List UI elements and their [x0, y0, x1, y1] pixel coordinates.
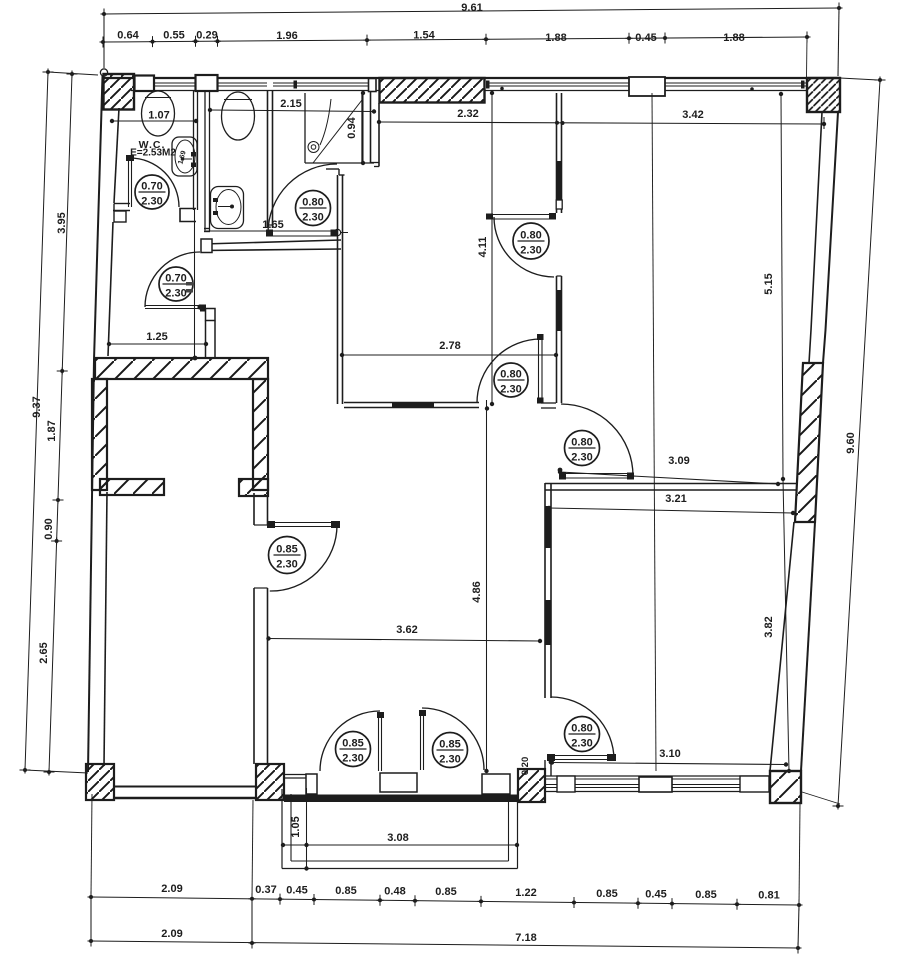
svg-text:0.85: 0.85: [596, 888, 617, 900]
door D10 jamb block right: [331, 521, 340, 528]
bottom window jamb pier b (white): [740, 776, 769, 792]
extension right top: [840, 78, 878, 80]
svg-text:9.60: 9.60: [845, 432, 857, 453]
kitchen counter: [304, 93, 306, 163]
window jamb ticks top wall: [294, 81, 298, 89]
svg-text:E=2.53M2: E=2.53M2: [130, 148, 176, 159]
stairwell left wall (hatched): [92, 379, 107, 490]
long reference line x=654: [652, 93, 656, 771]
door D3 swing arc: [494, 217, 554, 277]
svg-text:2.15: 2.15: [280, 98, 301, 110]
svg-text:0.45: 0.45: [286, 884, 307, 896]
svg-text:0.85: 0.85: [435, 886, 456, 898]
svg-text:0.85: 0.85: [695, 889, 716, 901]
dim node at stairwell top: [193, 356, 198, 361]
svg-text:0.85: 0.85: [276, 544, 297, 556]
svg-text:0.70: 0.70: [141, 181, 162, 193]
hall bottom wall: [344, 402, 479, 404]
door D7 top cap: [419, 710, 426, 716]
svg-text:0.37: 0.37: [255, 884, 276, 896]
door D1 WC 0.70 leaf: [128, 157, 130, 207]
door D2 bath label circle: [296, 191, 331, 226]
hall top wall: [203, 240, 341, 244]
svg-text:0.80: 0.80: [571, 437, 592, 449]
door D7 swing arc: [422, 708, 484, 770]
svg-text:1.54: 1.54: [413, 30, 435, 42]
svg-text:0.80: 0.80: [520, 230, 541, 242]
svg-text:3.09: 3.09: [668, 455, 689, 467]
svg-text:1.07: 1.07: [148, 110, 169, 122]
svg-text:2.30: 2.30: [276, 559, 297, 571]
dim 3.10 bottom window: [552, 763, 786, 765]
balcony outline inner: [290, 794, 292, 861]
extension line top-right corner: [838, 8, 839, 76]
kitchen right wall: [370, 92, 372, 163]
toilet WC: [142, 91, 175, 136]
column bottom (hatched, 0.20): [518, 769, 545, 802]
door D2 bath2 leaf: [268, 230, 337, 232]
door D7 leaf: [420, 712, 422, 770]
svg-text:0.45: 0.45: [645, 888, 666, 900]
door D4 hall south leaf: [538, 336, 540, 403]
bedroom west wall below door9: [544, 760, 546, 776]
door D10 swing arc: [270, 525, 337, 591]
svg-text:0.70: 0.70: [165, 273, 186, 285]
door D5 swing arc: [145, 252, 200, 307]
dimension left inner chain 3.95/1.87/0.90/2.65: [49, 74, 72, 772]
dim 2.78 hall: [342, 354, 556, 356]
dark band bedroom west wall upper: [545, 506, 551, 548]
svg-text:2.78: 2.78: [439, 340, 460, 352]
column bottom left-middle (hatched): [256, 764, 284, 800]
door jamb pier right (white): [482, 774, 510, 794]
door D6 leaf: [378, 714, 380, 771]
door D3 jamb block right: [549, 213, 556, 220]
kitchen faucet curve: [320, 99, 331, 145]
node dot window B: [500, 87, 504, 91]
svg-text:4.11: 4.11: [477, 237, 489, 258]
thin line below WC door jamb: [194, 209, 196, 360]
svg-text:0.29: 0.29: [196, 30, 217, 42]
kitchen counter diagonal: [313, 100, 362, 163]
dark band hall east wall: [556, 290, 562, 331]
hatched pier right wall: [795, 363, 823, 522]
svg-text:0.85: 0.85: [335, 885, 356, 897]
door D5 hall label circle: [159, 267, 193, 301]
kitchen nook step to hall wall: [326, 168, 339, 170]
door D3 front room leaf: [486, 214, 556, 216]
svg-text:3.08: 3.08: [387, 832, 408, 844]
dim 1.05 balcony: [306, 788, 308, 869]
svg-text:2.30: 2.30: [342, 753, 363, 765]
door D4 swing arc: [477, 339, 541, 403]
svg-text:2.30: 2.30: [571, 738, 592, 750]
bottom wall middle: thick band to balcony: [284, 795, 518, 803]
dim 2.15 kitchen: [210, 110, 374, 112]
extension right bottom: [802, 792, 840, 804]
bottom wall middle: top face: [284, 774, 306, 776]
svg-text:0.64: 0.64: [117, 30, 139, 42]
column bottom-left corner (hatched): [86, 764, 114, 800]
dim 3.21 bedroom: [549, 508, 793, 513]
hall east wall: [556, 276, 558, 403]
door D1 top cap: [126, 155, 134, 161]
dimension bottom row: 2.09 0.37 0.45 0.85 0.48 0.85 1.22 0.85 0.45 0.85 0.81: [91, 897, 799, 905]
dark band bedroom west wall lower: [545, 600, 552, 645]
balcony outline outer: [281, 789, 283, 869]
svg-text:0.80: 0.80: [500, 369, 521, 381]
dimension left outer: 9.37: [25, 72, 48, 770]
door D4 cap top: [537, 334, 544, 340]
door D2 jamb block left: [266, 230, 273, 237]
exterior wall top: outer face: [104, 77, 840, 79]
door D4 cap bottom: [537, 398, 544, 404]
svg-text:3.42: 3.42: [682, 109, 703, 121]
hall top wall left end pillar: [201, 239, 212, 253]
svg-text:1.88: 1.88: [545, 32, 566, 44]
svg-text:0.80: 0.80: [571, 723, 592, 735]
WC door jamb C-shape: [180, 209, 196, 222]
dim 3.09: [560, 472, 778, 484]
svg-text:0.94: 0.94: [346, 116, 358, 138]
svg-text:2.30: 2.30: [141, 196, 162, 208]
svg-text:2.30: 2.30: [571, 452, 592, 464]
door D1 WC label circle: [135, 175, 169, 209]
svg-text:4.86: 4.86: [471, 581, 483, 602]
dim 1.07 WC: [112, 120, 196, 122]
door D7 label circle: [433, 733, 468, 768]
svg-text:0.85: 0.85: [342, 738, 363, 750]
exterior wall left: outer face: [94, 76, 103, 360]
extension lines left top and bottom: [48, 72, 98, 75]
door D10 jamb block left: [267, 521, 275, 528]
svg-text:2.30: 2.30: [439, 754, 460, 766]
door D6 top cap: [377, 712, 384, 718]
svg-text:2.32: 2.32: [457, 108, 478, 120]
door D1 WC swing arc: [130, 158, 179, 207]
washbasin WC: [172, 137, 197, 176]
front room west wall upper segment: [556, 93, 558, 213]
tiny marks next to door D5 label: [186, 282, 193, 286]
dim 2.32 / 3.42: [379, 122, 824, 124]
door D9 swing arc: [551, 697, 614, 760]
left wall step at WC bottom: [114, 203, 130, 205]
svg-text:1.87: 1.87: [46, 420, 58, 441]
svg-text:3.62: 3.62: [396, 624, 417, 636]
door D6 label circle: [336, 732, 371, 767]
dim 3.08 balcony: [283, 844, 517, 846]
pier white top wall 3: [369, 79, 377, 92]
svg-text:0.55: 0.55: [163, 30, 184, 42]
pier white top wall mid (0.45): [629, 77, 665, 96]
dark band front room west wall: [556, 161, 561, 200]
door D8 bedroom leaf: [561, 473, 634, 475]
stairwell right wall (hatched): [253, 379, 268, 490]
svg-text:1.65: 1.65: [262, 219, 283, 231]
door D10 label circle: [269, 537, 306, 574]
svg-text:0.80: 0.80: [302, 197, 323, 209]
column bottom-right corner (hatched): [770, 771, 801, 803]
dim 1.65: [206, 230, 268, 232]
pier white top wall 1: [135, 76, 155, 92]
svg-text:5.15: 5.15: [763, 273, 775, 294]
dimension row 2: 0.64 0.55 0.29 1.96 1.54 1.88 0.45 1.88: [103, 37, 807, 42]
svg-text:1.25: 1.25: [146, 331, 167, 343]
hall west wall: [337, 175, 339, 404]
wall bath2/kitchen divider: [267, 90, 269, 228]
dim 0.94 kitchen: [362, 93, 364, 163]
svg-text:9.37: 9.37: [31, 396, 43, 417]
bath2 bottom cap: [204, 228, 210, 230]
extension line right: [806, 37, 809, 77]
svg-text:1.22: 1.22: [515, 887, 536, 899]
kitchen sink circles: [308, 142, 319, 153]
door D8 hinge: [558, 468, 563, 473]
svg-text:3.10: 3.10: [659, 748, 680, 760]
pier white top wall 2: [196, 75, 218, 91]
hatched wall block top-middle: [380, 78, 485, 103]
toilet bath2: [222, 92, 255, 140]
svg-text:1.96: 1.96: [276, 30, 297, 42]
door D5 hinge: [197, 304, 202, 309]
node dot window C: [750, 87, 754, 91]
bedroom west wall: [544, 483, 546, 698]
door D5 leaf end block: [200, 305, 206, 312]
tap WC basin: [191, 152, 196, 157]
svg-text:2.09: 2.09: [161, 883, 182, 895]
dim 1.25: [109, 343, 207, 345]
door D5 bottom jamb pillar: [206, 309, 216, 321]
bottom window mid pier (white): [639, 777, 672, 792]
door4 right jamb cap: [541, 402, 556, 404]
door D6 swing arc: [320, 711, 380, 771]
svg-text:3.95: 3.95: [56, 212, 68, 233]
svg-text:0.45: 0.45: [635, 32, 656, 44]
door D3 jamb block left: [486, 214, 493, 220]
door D4 label circle: [494, 363, 528, 397]
tick right end of 7.18 line: [797, 943, 799, 954]
bottom window jamb pier a (white): [557, 776, 575, 792]
exterior wall right: inner face: [809, 112, 822, 363]
door D9 hinge: [549, 760, 554, 765]
door D9 label circle: [565, 717, 600, 752]
exterior wall right: outer face: [823, 112, 838, 363]
wall pocket between doors (white): [380, 773, 417, 792]
dimension row: overall width 9.61: [104, 8, 839, 14]
bottom window right section faces: [545, 775, 769, 777]
svg-text:9.61: 9.61: [461, 2, 482, 14]
door D5 hall 0.70 leaf: [145, 305, 201, 307]
column top-left corner (hatched): [104, 74, 135, 110]
dimension bottom row 2: 2.09 / 7.18: [91, 941, 798, 948]
svg-text:0.20: 0.20: [520, 757, 531, 776]
svg-text:2.09: 2.09: [161, 928, 182, 940]
svg-text:1.88: 1.88: [723, 32, 744, 44]
dimension right outer: 9.60: [838, 80, 880, 806]
door jamb pier left (white): [306, 774, 317, 794]
svg-text:2.30: 2.30: [302, 212, 323, 224]
exterior wall top: inner face: [131, 90, 379, 92]
column top-right corner (hatched): [807, 78, 840, 112]
middle room west wall lower: [253, 588, 255, 764]
door D3 label circle: [513, 223, 549, 259]
wall below door D5: [205, 321, 207, 359]
door D8 label circle: [565, 431, 600, 466]
svg-text:2.30: 2.30: [520, 245, 541, 257]
datum circle top-left corner: [100, 69, 107, 76]
door D8 swing arc: [561, 404, 633, 476]
stairwell flange left (hatched): [100, 479, 164, 495]
extension line top-left corner: [103, 10, 105, 68]
door D9 jamb block right: [607, 754, 616, 761]
window glazing lines top wall: [155, 82, 196, 84]
bedroom top wall: [545, 483, 797, 485]
svg-text:0.90: 0.90: [43, 518, 55, 539]
stairwell flange right (hatched): [239, 479, 268, 496]
middle room west wall upper: [253, 493, 255, 525]
svg-text:0.48: 0.48: [384, 885, 405, 897]
door D9 balcony leaf: [549, 755, 616, 757]
door D9 jamb block left: [547, 754, 555, 761]
stairwell top wall (hatched): [95, 358, 268, 379]
extension verticals bottom dims: [90, 897, 92, 941]
svg-text:3.21: 3.21: [665, 493, 686, 505]
svg-text:1.05: 1.05: [290, 816, 302, 837]
tap bath2 basin: [213, 198, 218, 202]
svg-text:2.30: 2.30: [500, 384, 521, 396]
dim 4.86 vertical: [486, 400, 488, 771]
svg-text:0.85: 0.85: [439, 739, 460, 751]
washbasin bath2: [211, 187, 244, 229]
wall WC right / bath2 left: [193, 91, 195, 210]
door D2 jamb block right: [331, 230, 339, 237]
dark threshold band hall bottom: [392, 403, 434, 408]
door D2 hinge: [334, 229, 340, 235]
door D2 swing arc: [268, 164, 337, 233]
dim 3.62 middle room: [269, 639, 541, 642]
left wall step below WC: [114, 211, 126, 222]
exterior wall left: inner face segments: [114, 108, 119, 203]
svg-text:0.81: 0.81: [758, 890, 779, 902]
dim 4.11 vertical: [491, 93, 493, 404]
bottom wall left section: [114, 786, 256, 788]
door D8 jamb block right: [627, 473, 634, 480]
door D8 jamb block left: [559, 473, 566, 480]
svg-text:2.30: 2.30: [165, 288, 186, 300]
dimension right inner chain 5.15/3.82: [781, 94, 783, 479]
svg-text:3.82: 3.82: [763, 616, 775, 637]
svg-text:2.65: 2.65: [38, 642, 50, 663]
svg-text:7.18: 7.18: [515, 932, 536, 944]
door D10 middle room leaf: [269, 522, 339, 524]
